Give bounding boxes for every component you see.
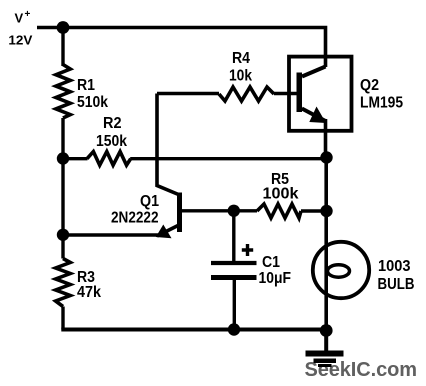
svg-text:BULB: BULB bbox=[378, 276, 415, 293]
svg-text:47k: 47k bbox=[77, 284, 101, 301]
svg-text:LM195: LM195 bbox=[360, 95, 403, 112]
svg-text:1003: 1003 bbox=[378, 258, 411, 275]
svg-text:R1: R1 bbox=[77, 77, 95, 94]
svg-text:10μF: 10μF bbox=[259, 270, 292, 287]
svg-text:Q2: Q2 bbox=[360, 77, 379, 94]
svg-text:10k: 10k bbox=[229, 68, 252, 85]
svg-text:+: + bbox=[25, 9, 31, 20]
svg-text:C1: C1 bbox=[262, 254, 280, 271]
svg-text:100k: 100k bbox=[263, 186, 299, 203]
svg-text:V: V bbox=[15, 11, 24, 26]
svg-text:Q1: Q1 bbox=[140, 193, 159, 210]
svg-text:2N2222: 2N2222 bbox=[111, 210, 159, 227]
svg-text:R4: R4 bbox=[232, 50, 250, 67]
svg-text:12V: 12V bbox=[8, 32, 32, 47]
svg-text:R2: R2 bbox=[103, 115, 122, 132]
svg-text:150k: 150k bbox=[96, 133, 127, 150]
svg-text:510k: 510k bbox=[77, 94, 108, 111]
